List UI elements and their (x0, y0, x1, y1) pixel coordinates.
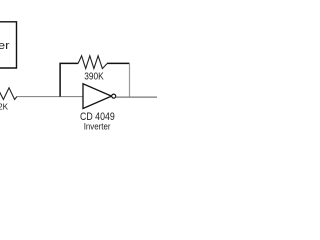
svg-text:2K: 2K (0, 103, 9, 112)
svg-text:390K: 390K (84, 71, 104, 82)
svg-text:Inverter: Inverter (84, 120, 111, 131)
svg-text:er: er (0, 40, 10, 52)
